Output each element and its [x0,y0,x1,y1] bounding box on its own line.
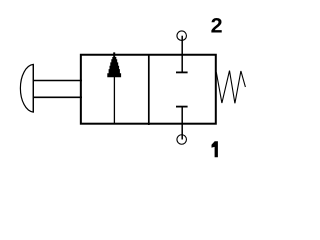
port label 1 [212,141,218,157]
port 2 circle (top) [177,31,187,41]
push button cap (mushroom head) [20,64,33,112]
push button stem (lower line) [33,96,82,98]
port label 2 [211,14,223,38]
position divider line [148,54,150,125]
return spring [216,71,245,104]
flow path arrow shaft (left square, port 1 to 2) [113,54,115,124]
flow path arrowhead [107,52,121,77]
port 2 connection line [181,36,183,73]
svg-text:2: 2 [211,14,223,38]
valve body outline (2-position box) [81,55,216,124]
blocked port symbol (top T bar) [176,71,188,73]
push button stem (upper line) [33,80,82,82]
port 1 circle (bottom) [177,135,187,145]
blocked port symbol (bottom T bar) [176,106,188,108]
port 1 connection line [181,106,183,140]
